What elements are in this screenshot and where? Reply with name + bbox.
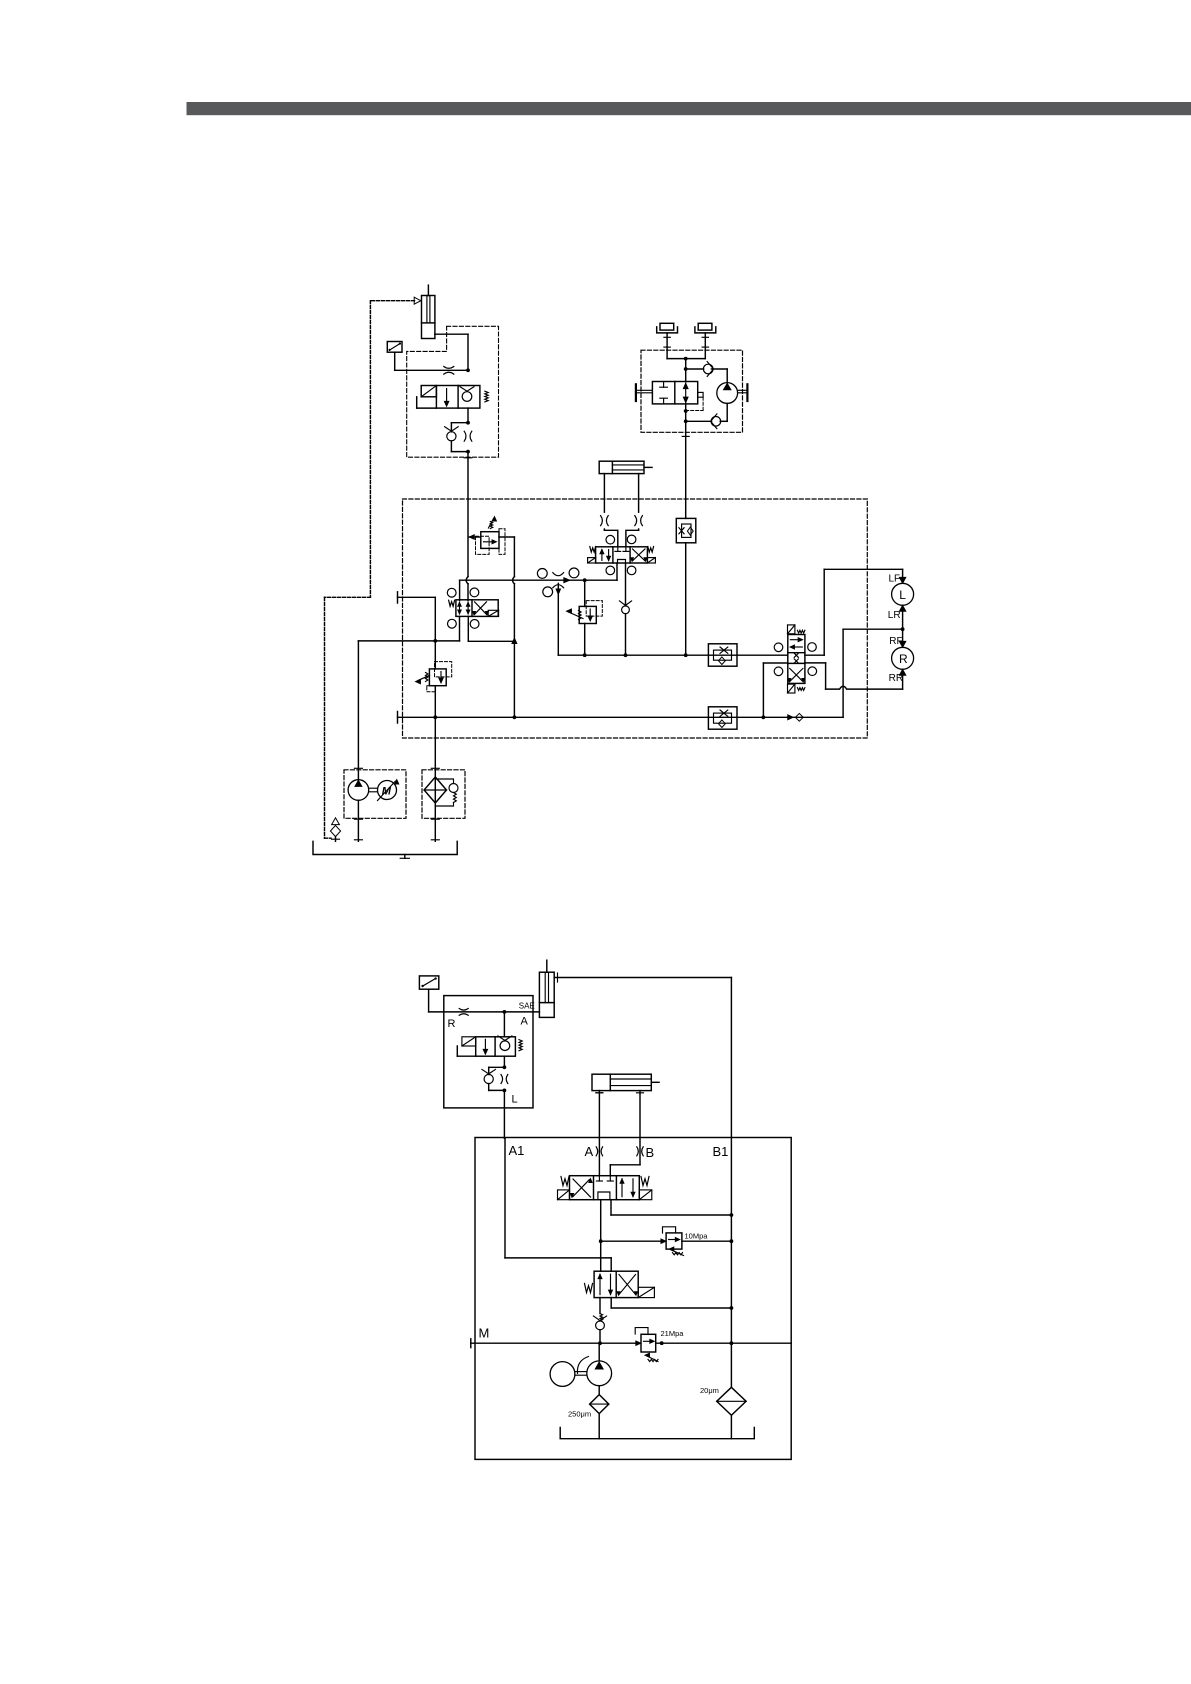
svg-text:LF: LF	[889, 574, 901, 585]
svg-text:B1: B1	[713, 1144, 729, 1159]
svg-text:L: L	[512, 1094, 518, 1106]
svg-text:SAE: SAE	[519, 1002, 535, 1011]
svg-text:L: L	[899, 588, 906, 602]
svg-text:10Mpa: 10Mpa	[685, 1232, 709, 1241]
svg-text:A: A	[585, 1144, 594, 1159]
svg-text:M: M	[479, 1326, 490, 1341]
svg-text:20μm: 20μm	[700, 1386, 719, 1395]
svg-text:RF: RF	[889, 636, 902, 647]
svg-text:A1: A1	[509, 1143, 525, 1158]
svg-text:250μm: 250μm	[568, 1410, 591, 1419]
svg-text:R: R	[899, 652, 908, 666]
svg-text:A: A	[521, 1016, 529, 1028]
svg-text:B: B	[646, 1145, 655, 1160]
svg-text:R: R	[448, 1018, 456, 1030]
svg-text:21Mpa: 21Mpa	[661, 1329, 685, 1338]
svg-text:LR: LR	[888, 610, 901, 621]
svg-text:RR: RR	[889, 673, 903, 684]
